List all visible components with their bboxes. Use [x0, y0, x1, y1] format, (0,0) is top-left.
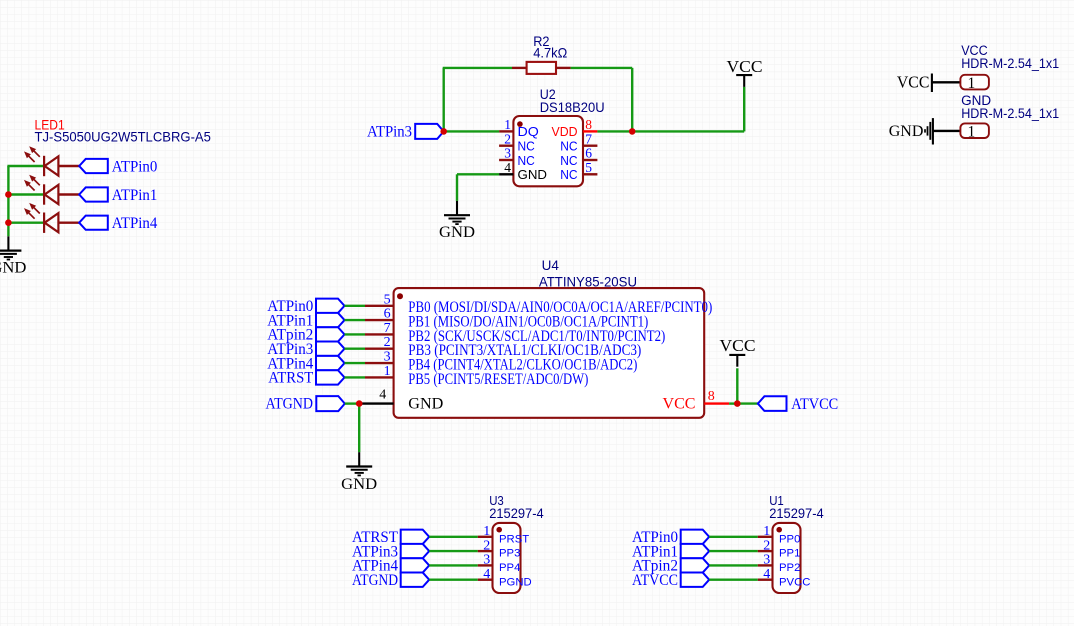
- svg-text:U4: U4: [542, 258, 560, 273]
- svg-text:VCC: VCC: [663, 396, 696, 413]
- wire ATPin3 to U4: [345, 348, 366, 350]
- svg-text:ATGND: ATGND: [352, 572, 398, 589]
- U4 pin 6 stub: [365, 319, 394, 321]
- svg-text:NC: NC: [518, 154, 535, 168]
- wire node to VCC riser: [632, 130, 744, 132]
- junction dot: [356, 400, 363, 407]
- svg-text:3: 3: [483, 553, 490, 568]
- svg-text:6: 6: [384, 307, 391, 322]
- svg-text:2: 2: [504, 131, 511, 146]
- svg-text:DQ: DQ: [518, 125, 540, 139]
- svg-text:VDD: VDD: [552, 125, 578, 139]
- svg-text:1: 1: [968, 75, 976, 92]
- wire ATGND to U3: [429, 579, 478, 581]
- port ATGND: [316, 396, 345, 411]
- U3 pin 4 stub: [478, 579, 493, 581]
- resistor R2 left lead: [512, 67, 527, 69]
- connector U1 215297-4 body: [773, 523, 801, 593]
- U1 pin1 marker dot: [776, 527, 782, 533]
- junction dot: [440, 128, 447, 135]
- U1 pin 4 stub: [758, 579, 773, 581]
- svg-text:GND: GND: [439, 224, 475, 241]
- header GND pin 1 box: [960, 123, 989, 138]
- wire LED2 cathode segment: [7, 193, 43, 195]
- ground symbol GND (U4): [346, 452, 372, 475]
- wire ATGND to junction: [345, 402, 359, 404]
- port ATPin4: [79, 216, 108, 230]
- svg-text:4: 4: [379, 387, 386, 402]
- svg-text:4.7kΩ: 4.7kΩ: [533, 46, 567, 61]
- wire LED2 anode: [58, 193, 79, 195]
- svg-text:VCC: VCC: [720, 336, 756, 355]
- wire VCC flag to header pin: [932, 81, 961, 83]
- wire ATPin4 to U4: [345, 362, 366, 364]
- port ATPin1 (U4): [316, 313, 345, 327]
- svg-text:ATPin0: ATPin0: [112, 158, 158, 175]
- U3 pin 1 stub: [478, 536, 493, 538]
- svg-text:GND: GND: [518, 168, 548, 182]
- wire GND drop (U4): [358, 404, 360, 453]
- U3 pin 2 stub: [478, 550, 493, 552]
- wire GND drop (U2): [456, 174, 458, 201]
- svg-text:TJ-S5050UG2W5TLCBRG-A5: TJ-S5050UG2W5TLCBRG-A5: [35, 130, 211, 145]
- resistor R2 body: [527, 62, 556, 74]
- U2 pin 5 stub: [583, 173, 597, 175]
- wire ATPin0 to U1: [709, 536, 758, 538]
- svg-text:215297-4: 215297-4: [489, 506, 544, 521]
- port ATGND (U3): [401, 573, 430, 587]
- svg-text:2: 2: [483, 538, 490, 553]
- wire VCC riser (U4): [736, 368, 738, 403]
- svg-text:8: 8: [708, 389, 715, 404]
- svg-text:ATRST: ATRST: [268, 370, 313, 387]
- svg-text:6: 6: [585, 146, 592, 161]
- svg-text:PB5 (PCINT5/RESET/ADC0/DW): PB5 (PCINT5/RESET/ADC0/DW): [408, 371, 588, 388]
- port ATPin4 (U4): [316, 356, 345, 370]
- wire LED3 anode: [58, 221, 79, 223]
- svg-text:GND: GND: [889, 123, 924, 140]
- U4 pin 7 stub: [365, 333, 394, 335]
- ground symbol (header, pointing left): [925, 118, 933, 144]
- port ATPin3 (U3): [401, 544, 430, 558]
- wire ATVCC to U1: [709, 579, 758, 581]
- svg-text:2: 2: [384, 335, 391, 350]
- port ATVCC (U1): [681, 573, 710, 587]
- svg-text:5: 5: [384, 292, 391, 307]
- U2 pin 6 stub: [583, 159, 597, 161]
- U1 pin 2 stub: [758, 550, 773, 552]
- svg-text:ATGND: ATGND: [266, 395, 314, 412]
- U4 pin 3 stub: [365, 362, 394, 364]
- svg-text:ATPin3: ATPin3: [367, 124, 412, 141]
- wire riser to U2 pin8 net: [631, 68, 633, 132]
- U3 pin 3 stub: [478, 564, 493, 566]
- wire ATPin4 to U3: [429, 564, 478, 566]
- wire LED cathode bus vertical: [7, 166, 9, 236]
- svg-text:7: 7: [585, 131, 592, 146]
- wire ATPin1 to U4: [345, 319, 366, 321]
- wire U4 pin8 to junction: [729, 402, 737, 404]
- port ATPin0 (U4): [316, 299, 345, 313]
- svg-text:GND: GND: [0, 260, 26, 277]
- connector U3 215297-4 body: [493, 523, 521, 593]
- wire ATPin3 to U3: [429, 550, 478, 552]
- wire junction to U4 GND pin: [359, 402, 393, 404]
- wire U2 pin8 to node: [597, 130, 632, 132]
- wire junction to ATVCC port: [737, 402, 758, 404]
- U4 pin1 marker dot: [397, 293, 403, 299]
- port ATpin2 (U4): [316, 327, 345, 341]
- wire ATPin1 to U1: [709, 550, 758, 552]
- port ATPin3: [415, 124, 444, 139]
- U2 pin1 marker dot: [517, 121, 523, 127]
- junction dot: [5, 219, 12, 226]
- wire ATPin0 to U4: [345, 305, 366, 307]
- U2 pin 1 stub: [499, 130, 513, 132]
- junction dot: [5, 191, 12, 198]
- svg-text:2: 2: [763, 538, 770, 553]
- wire ATRST to U4: [345, 376, 366, 378]
- power flag VCC (U4): [729, 355, 745, 367]
- svg-text:4: 4: [504, 160, 511, 175]
- svg-text:1: 1: [504, 117, 511, 132]
- wire ATpin2 to U4: [345, 333, 366, 335]
- svg-text:215297-4: 215297-4: [769, 506, 824, 521]
- svg-text:GND: GND: [341, 476, 377, 493]
- wire U2 pin4 to GND: [457, 173, 499, 175]
- IC U4 ATTINY85-20SU body: [394, 288, 705, 418]
- port ATPin3 (U4): [316, 342, 345, 356]
- svg-text:PP0: PP0: [779, 533, 800, 545]
- svg-text:7: 7: [384, 321, 391, 336]
- wire R2 to riser: [571, 67, 633, 69]
- U2 pin 2 stub: [499, 144, 513, 146]
- wire LED1 anode: [58, 165, 79, 167]
- U4 pin 5 stub: [365, 305, 394, 307]
- port ATPin0: [79, 159, 108, 173]
- svg-text:1: 1: [384, 364, 391, 379]
- LED D3 (part of LED1): [24, 203, 58, 233]
- ground symbol GND (LED bus): [0, 236, 21, 259]
- U3 pin1 marker dot: [496, 527, 502, 533]
- svg-text:NC: NC: [560, 140, 577, 154]
- wire ATPin3 to U2 pin1: [444, 130, 499, 132]
- svg-text:1: 1: [483, 524, 490, 539]
- power flag VCC (top): [736, 75, 752, 87]
- svg-text:ATVCC: ATVCC: [791, 396, 838, 413]
- svg-text:HDR-M-2.54_1x1: HDR-M-2.54_1x1: [961, 56, 1059, 71]
- svg-text:PVCC: PVCC: [779, 576, 810, 588]
- wire riser to R2: [443, 68, 445, 132]
- svg-text:PP4: PP4: [499, 562, 520, 574]
- svg-text:PGND: PGND: [499, 576, 532, 588]
- wire ATpin2 to U1: [709, 564, 758, 566]
- port ATPin0 (U1): [681, 530, 710, 544]
- U4 pin 8 stub (VCC, red): [704, 402, 729, 404]
- junction dot: [629, 128, 636, 135]
- U1 pin 3 stub: [758, 564, 773, 566]
- svg-text:3: 3: [763, 553, 770, 568]
- header VCC pin 1 box: [960, 75, 989, 90]
- svg-text:ATPin1: ATPin1: [112, 187, 158, 204]
- LED D2 (part of LED1): [24, 175, 58, 205]
- wire to R2 left lead: [443, 67, 512, 69]
- svg-text:3: 3: [504, 146, 511, 161]
- svg-text:3: 3: [384, 350, 391, 365]
- wire VCC riser: [743, 87, 745, 131]
- U2 pin 8 stub: [583, 130, 597, 132]
- port ATPin1: [79, 187, 108, 201]
- svg-text:PP3: PP3: [499, 548, 520, 560]
- svg-text:ATPin4: ATPin4: [112, 215, 158, 232]
- svg-text:HDR-M-2.54_1x1: HDR-M-2.54_1x1: [961, 106, 1059, 121]
- ground symbol GND (U2): [444, 201, 470, 224]
- resistor R2 right lead: [556, 67, 571, 69]
- svg-text:1: 1: [763, 524, 770, 539]
- svg-text:NC: NC: [518, 140, 535, 154]
- svg-text:ATVCC: ATVCC: [632, 572, 678, 589]
- U1 pin 1 stub: [758, 536, 773, 538]
- port ATRST (U3): [401, 530, 430, 544]
- svg-text:4: 4: [483, 567, 490, 582]
- svg-text:DS18B20U: DS18B20U: [540, 100, 605, 115]
- svg-text:4: 4: [763, 567, 770, 582]
- port ATPin1 (U1): [681, 544, 710, 558]
- U4 pin 1 stub: [365, 376, 394, 378]
- svg-text:GND: GND: [408, 396, 443, 413]
- svg-text:NC: NC: [560, 168, 577, 182]
- svg-text:VCC: VCC: [897, 73, 930, 92]
- svg-text:8: 8: [585, 117, 592, 132]
- U4 pin 2 stub: [365, 348, 394, 350]
- port ATpin2 (U1): [681, 558, 710, 572]
- wire GND flag to header pin: [933, 130, 961, 132]
- port ATVCC: [758, 396, 787, 411]
- wire ATRST to U3: [429, 536, 478, 538]
- U2 pin 7 stub: [583, 144, 597, 146]
- svg-text:1: 1: [968, 123, 976, 140]
- svg-text:PRST: PRST: [499, 533, 529, 545]
- svg-text:PP2: PP2: [779, 562, 800, 574]
- svg-text:VCC: VCC: [727, 57, 763, 76]
- LED D1 (part of LED1): [24, 146, 58, 176]
- svg-text:5: 5: [585, 160, 592, 175]
- IC U2 DS18B20U body: [513, 116, 583, 186]
- svg-text:PP1: PP1: [779, 548, 800, 560]
- junction dot: [734, 400, 741, 407]
- U2 pin 4 stub: [499, 173, 513, 175]
- wire LED1 cathode segment: [7, 165, 43, 167]
- port ATRST (U4): [316, 370, 345, 384]
- wire LED3 cathode segment: [7, 221, 43, 223]
- port ATPin4 (U3): [401, 558, 430, 572]
- svg-text:NC: NC: [560, 154, 577, 168]
- U2 pin 3 stub: [499, 159, 513, 161]
